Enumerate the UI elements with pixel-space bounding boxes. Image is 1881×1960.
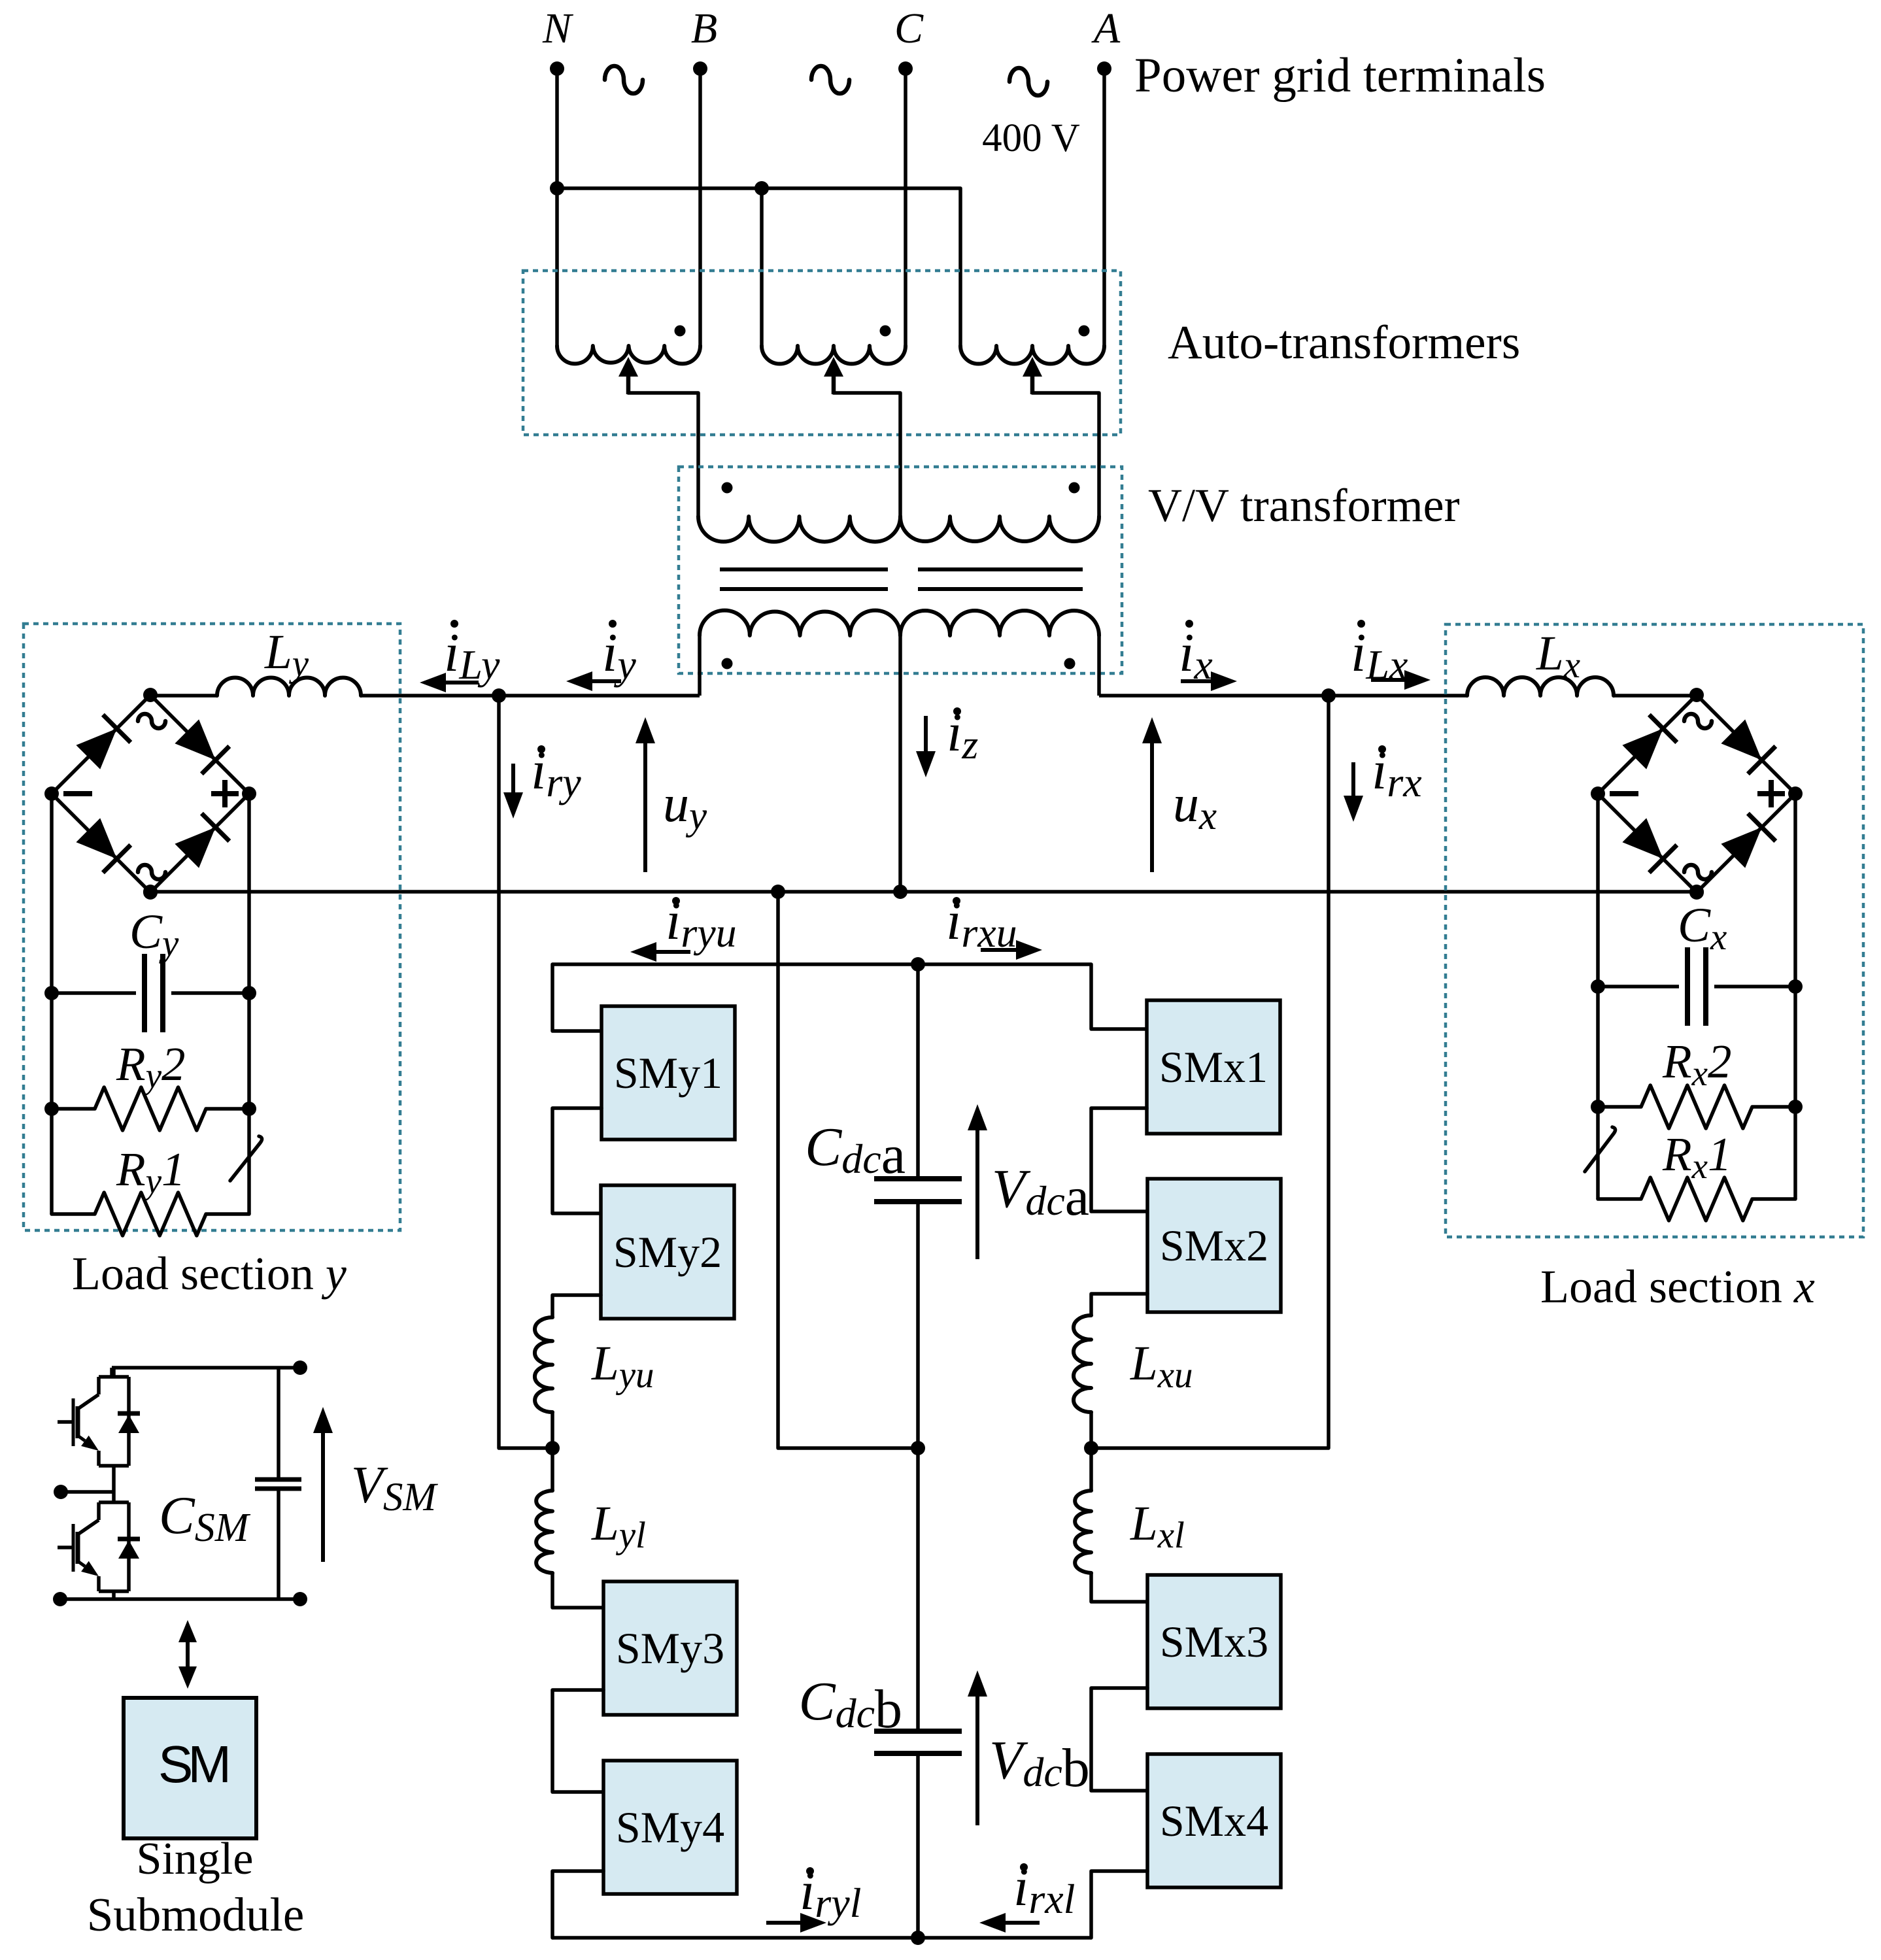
wire SMy4 to bottom bus [552,1871,603,1938]
wire bridge y right vertical [247,794,251,1214]
arrow irx [1351,762,1355,796]
inductor Lxl [1075,1491,1091,1573]
auto-transformer T2 polarity dot [880,326,891,337]
wire irx branch [1091,696,1329,1448]
auto-transformer T3 winding [960,346,1104,363]
wire A vertical [1102,69,1106,346]
arrow iry [511,764,515,792]
auto-transformer T2 tap wire [834,393,900,516]
v/v primary polarity dot right [1069,482,1080,494]
submodule SMx3 [1147,1575,1281,1708]
svg-text:B: B [691,5,717,52]
auto-transformer T1 tap arrow [626,377,631,394]
svg-text:SMy1: SMy1 [614,1048,722,1098]
wire to SMx1 [1091,964,1147,1029]
capacitor Cx [1598,985,1679,988]
svg-text:SM: SM [158,1735,228,1793]
junction dots Cy [44,986,59,1000]
arrow Vdca [975,1130,979,1259]
wire upper arm bus [552,962,1091,966]
igbt S2 with diode [99,1500,129,1504]
diode D4 (bottom to plus arm) (bridge x) [1721,827,1761,868]
svg-text:V/V transformer: V/V transformer [1148,479,1460,532]
wire N vertical [555,69,559,346]
wire S2 emitter to bottom [112,1591,116,1599]
svg-text:SMx2: SMx2 [1160,1221,1268,1270]
capacitor CSM branch lower [277,1489,280,1599]
node x junction dot [1321,688,1336,703]
diode D3 (lower-left to bottom arm) (bridge y) [76,818,116,858]
svg-text:N: N [542,5,574,52]
v/v transformer dashed box [679,467,1122,673]
capacitor CSM [255,1478,301,1482]
igbt S1 with diode [99,1375,129,1379]
auto-transformer T1 tap wire [628,393,698,516]
wire Lyl to SMy3 [552,1573,603,1608]
wire SMx3 to SMx4 [1091,1688,1147,1791]
node B terminal [693,61,707,76]
junction dots Rx2 [1591,1100,1605,1114]
auto-transformer T2 tap arrow [832,377,836,394]
junction dot upper arm center [911,957,925,972]
submodule SMy1 [602,1006,735,1140]
svg-text:SMy3: SMy3 [616,1623,724,1673]
ac source symbol 1 [605,66,643,93]
wire bridge x right vertical [1793,794,1797,1199]
diode D1 (lower-left arm) (bridge x) [1622,728,1663,769]
node C terminal [898,61,913,76]
v/v secondary lead left [698,635,702,696]
bridge vertex dots (bridge y) [143,688,158,702]
svg-text:Load section x: Load section x [1540,1260,1815,1313]
svg-text:C: C [894,5,924,52]
auto-transformer T3 tap arrow [1030,377,1035,394]
capacitor Cdca [874,1176,962,1181]
submodule SMx4 [1147,1754,1281,1887]
wire SMx4 to bottom bus [1091,1871,1147,1938]
arrow iLx [1371,678,1404,682]
arrow ix [1181,679,1211,683]
svg-text:SMy2: SMy2 [613,1227,722,1277]
v/v secondary polarity dot left [722,658,733,669]
wire S1 emitter to midpoint [112,1466,116,1502]
arrow uy [643,743,647,872]
wire SMx2 to Lxu [1091,1294,1147,1315]
v/v transformer primary winding [698,516,900,542]
diode D4 (bottom to plus arm) (bridge y) [175,827,215,868]
submodule SMy3 [603,1581,737,1715]
wire mmc center branch [778,892,918,1448]
wire dc-link lower [916,1753,920,1938]
arrow ux [1150,743,1154,872]
svg-text:SMx4: SMx4 [1160,1796,1268,1846]
junction dot second transformer feed [754,181,769,195]
diode D1 (lower-left arm) (bridge y) [76,728,116,769]
wire bridge x left vertical [1596,794,1600,1199]
wire dc-link upper [916,964,920,1179]
junction dot N jumper [550,181,564,195]
auto-transformer T2 winding [762,346,906,363]
wire Lxu to Lxl [1089,1412,1093,1491]
svg-text:Single: Single [137,1834,254,1884]
junction dot lower arm center [911,1931,925,1945]
bridge ac mark top (bridge y) [138,714,165,728]
diode bridge y [52,695,150,794]
bridge ac mark bottom (bridge x) [1684,865,1712,879]
single submodule bottom rail [60,1597,300,1601]
wire dc-link middle [916,1202,920,1731]
wire SMy1 to SMy2 [552,1108,602,1213]
v/v transformer core [720,567,888,571]
junction dot x arm midpoint [1084,1441,1098,1455]
load section y dashed box [24,624,400,1230]
wire second transformer feed [760,188,764,346]
wire SMy3 to SMy4 [552,1690,603,1792]
svg-text:Submodule: Submodule [87,1888,305,1941]
v/v primary polarity dot left [722,482,733,494]
junction dot y arm midpoint [545,1441,560,1455]
wire S1 collector [112,1368,116,1377]
diode D2 (upper-right arm) (bridge x) [1721,719,1761,760]
wire SMx1 to SMx2 [1091,1108,1147,1211]
resistor Ry2 [52,1087,249,1130]
svg-text:SMy4: SMy4 [616,1802,724,1852]
arrow iy [592,679,621,683]
submodule SMy4 [603,1761,737,1894]
junction dot bus right bridge [1689,885,1704,899]
v/v transformer secondary winding [700,611,900,635]
wire Lyu to Lyl [551,1412,554,1491]
capacitor Cy [52,991,136,995]
wire iry branch [499,696,553,1448]
wire SMy2 to Lyu [552,1295,601,1317]
inductor Ly [217,677,361,696]
svg-text:Power grid terminals: Power grid terminals [1134,48,1546,103]
load section x dashed box [1446,624,1863,1237]
diode D2 (upper-right arm) (bridge y) [175,719,215,760]
arrow iLy [446,681,479,684]
node N terminal [550,61,564,76]
bridge vertex dots (bridge x) [1689,688,1704,702]
auto-transformer T3 tap wire [1032,393,1099,516]
ac source symbol 2 [811,66,849,93]
diode D3 (lower-left to bottom arm) (bridge x) [1622,818,1663,858]
svg-text:Load section y: Load section y [72,1247,347,1300]
resistor Ry1 (variable) [52,1192,249,1236]
v/v secondary lead right [1097,635,1101,696]
submodule SM box [124,1698,256,1838]
ac source symbol 3 [1009,68,1047,95]
submodule SMx2 [1147,1179,1281,1312]
inductor Lyl [536,1491,552,1573]
wire x-phase ac [1099,694,1467,698]
inductor Lx [1467,677,1614,696]
v/v secondary polarity dot right [1064,658,1076,669]
arrow VSM [321,1433,325,1562]
auto-transformer T3 polarity dot [1079,326,1090,337]
bridge ac mark bottom (bridge y) [138,865,165,879]
arrow Vdcb [975,1697,979,1825]
wire Lxl to SMx3 [1091,1573,1147,1602]
bridge ac mark top (bridge x) [1684,714,1712,728]
wire jumper N to third transformer [557,188,960,346]
wire lower arm bus [552,1936,1091,1940]
diode bridge x [1598,695,1697,794]
wire y-phase ac [361,694,700,698]
svg-text:A: A [1091,5,1121,52]
wire B vertical [698,69,702,346]
submodule SMx1 [1147,1000,1280,1134]
arrow irxl [1006,1921,1040,1925]
inductor Lyu [535,1317,552,1412]
arrow irxu [981,948,1016,952]
bridge minus sign (bridge y) [63,791,92,796]
capacitor Cdcb [874,1729,962,1734]
arrow iz [924,716,928,751]
resistor Rx2 [1598,1085,1795,1128]
junction dots Ry2 [44,1102,59,1116]
svg-text:SMx3: SMx3 [1160,1617,1268,1666]
variable resistor arrow tick y [230,1136,262,1181]
bridge plus sign (bridge x) [1757,791,1785,796]
node A terminal [1097,61,1111,76]
auto-transformer T1 polarity dot [675,326,686,337]
auto-transformer T1 winding [557,346,700,363]
submodule SMy2 [601,1185,734,1319]
wire main dc bus [150,890,1697,894]
inductor Lxu [1074,1315,1091,1412]
svg-text:400 V: 400 V [982,116,1080,160]
arrow iryl [766,1921,800,1925]
svg-text:Auto-transformers: Auto-transformers [1168,316,1520,369]
junction dot bus left bridge [143,885,158,899]
svg-text:SMx1: SMx1 [1159,1042,1268,1092]
single submodule bottom terminal dots [53,1592,67,1606]
arrow iryu [656,950,690,954]
junction dots Cx [1591,979,1605,994]
single submodule top rail [112,1366,300,1370]
wire Ly to bridge [150,694,217,698]
wire to SMy1 [552,964,602,1031]
capacitor CSM branch upper [277,1368,280,1479]
junction dot center branch to dc-link [911,1441,925,1455]
junction dot bus iz [893,885,907,899]
resistor Rx1 (variable) [1598,1177,1795,1221]
variable resistor arrow tick x [1585,1127,1616,1172]
auto-transformers dashed box [523,271,1121,435]
double arrow submodule equivalence [186,1642,190,1654]
single submodule ac terminal dot [54,1485,68,1499]
junction dot bus mmc [771,885,785,899]
single submodule top terminal dot [293,1360,307,1375]
wire C vertical [904,69,907,346]
node y junction dot [492,688,506,703]
v/v secondary center tap wire iz [898,635,902,892]
wire Lx to bridge [1614,694,1697,698]
bridge plus sign (bridge y) [211,791,239,796]
wire bridge y left vertical [50,794,54,1214]
bridge minus sign (bridge x) [1610,791,1638,796]
wire ac terminal [61,1490,114,1494]
